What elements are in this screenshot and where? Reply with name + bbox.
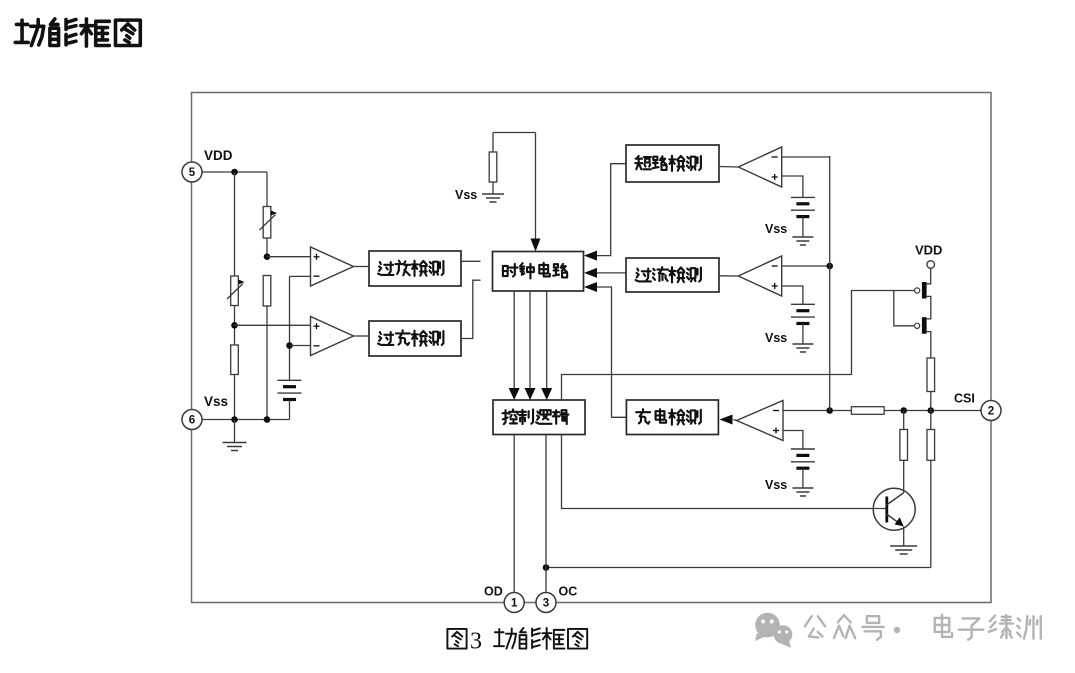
battery reference B4 xyxy=(791,449,815,488)
wire M1 source to M2 drain xyxy=(927,296,931,319)
arrow into control 1 xyxy=(509,388,520,400)
resistor R8 sense (horizontal) xyxy=(851,407,884,415)
arrow into clock right 3 xyxy=(584,282,597,292)
label OC pin3 xyxy=(559,585,578,599)
svg-text:3: 3 xyxy=(470,629,482,655)
wire 过放检测 to clock xyxy=(461,260,481,262)
battery reference B1 xyxy=(278,380,302,419)
wire Q1 emitter xyxy=(903,526,905,546)
wire comparator D plus to reference xyxy=(782,286,803,304)
svg-text:VDD: VDD xyxy=(915,243,942,258)
arrow into control 2 xyxy=(525,388,536,400)
transistor M2 (PMOS) xyxy=(915,317,927,334)
wire sense vertical x=829.7 xyxy=(829,156,831,411)
node divider tap B xyxy=(231,322,238,329)
wire comparator C plus to reference xyxy=(782,176,803,197)
watermark text 公众号 电子绿洲 xyxy=(805,615,1041,640)
wire control to OC pin xyxy=(545,435,547,594)
op-amp comparator C (short-circuit) xyxy=(738,147,781,187)
block 充电检测 charger detect xyxy=(626,400,718,435)
battery reference B3 xyxy=(791,304,815,344)
label OD pin1 xyxy=(484,585,503,599)
wire M2 source down xyxy=(927,332,931,358)
svg-text:Vss: Vss xyxy=(765,478,787,492)
wire VDD to M1 drain xyxy=(927,268,931,284)
wire comparator D output xyxy=(719,275,738,277)
node CSI junction 1 xyxy=(826,407,833,414)
ground Vss ref D xyxy=(792,344,813,352)
node reference junction xyxy=(286,342,293,349)
svg-text:Vss: Vss xyxy=(455,188,477,202)
wire comparator E plus to reference xyxy=(783,431,803,450)
wire comparator B minus input xyxy=(290,345,311,347)
label VDD right xyxy=(915,243,942,258)
wire comparator B plus input xyxy=(235,324,311,326)
resistor R5 top bias xyxy=(489,133,497,195)
label VDD pin5 xyxy=(204,148,233,163)
wire comparator B output xyxy=(354,335,370,337)
resistor R3 xyxy=(231,345,239,375)
label Vss ref D xyxy=(765,331,787,345)
svg-text:3: 3 xyxy=(543,598,549,610)
wire Vss rail from pin6 xyxy=(202,419,290,421)
svg-text:2: 2 xyxy=(988,406,994,418)
arrow into control 3 xyxy=(541,388,552,400)
node sense junction D xyxy=(826,263,833,270)
op-amp comparator D (overcurrent) xyxy=(738,256,781,296)
pin 1 OD xyxy=(504,593,524,613)
svg-text:VDD: VDD xyxy=(204,148,233,163)
ground Vss ref E xyxy=(792,488,813,496)
wire control to FET gate bus xyxy=(562,291,915,401)
svg-text:5: 5 xyxy=(189,167,196,179)
op-amp comparator B (overcharge) xyxy=(311,317,354,356)
node Vss junction 1 xyxy=(231,416,238,423)
op-amp comparator A (overdischarge) xyxy=(311,247,354,286)
label CSI pin2 xyxy=(954,392,975,406)
svg-text:Vss: Vss xyxy=(204,394,228,409)
wire base drive from control xyxy=(562,435,887,509)
op-amp comparator E (charger) xyxy=(737,401,784,441)
node Vss junction 2 xyxy=(264,416,271,423)
block 过流检测 overcurrent detect xyxy=(626,258,719,292)
svg-text:Vss: Vss xyxy=(765,331,787,345)
transistor Q1 (NPN) xyxy=(873,488,915,530)
terminal VDD open circle xyxy=(927,261,935,269)
wire 过流检测 to clock xyxy=(597,272,627,274)
wire VDD rail from pin5 xyxy=(202,171,267,173)
ground under Q1 xyxy=(890,546,917,554)
block 过放检测 overdischarge detect xyxy=(369,251,461,286)
wire 充电检测 to clock xyxy=(597,287,627,417)
svg-text:OC: OC xyxy=(559,585,578,599)
wire branch x=267 xyxy=(266,172,268,420)
node divider tap A xyxy=(264,253,271,260)
wire bias to clock top xyxy=(493,133,536,242)
block 过充检测 overcharge detect xyxy=(369,321,461,356)
label Vss pin6 xyxy=(204,394,228,409)
wire comparator D minus to CSI sense xyxy=(782,265,830,267)
arrow into clock top xyxy=(531,239,541,252)
wire comparator C minus to CSI sense xyxy=(782,156,830,158)
arrow comparator E output into 充电检测 xyxy=(720,415,737,425)
watermark wechat icon xyxy=(755,613,792,648)
block 控制逻辑 control logic xyxy=(493,400,585,435)
resistor R9 xyxy=(927,411,935,568)
arrow into clock left 1 xyxy=(494,256,507,266)
wire comparator C output xyxy=(719,166,738,169)
battery reference B2 xyxy=(791,197,815,237)
wire comparator A output xyxy=(354,266,370,268)
caption 图3 功能框图 xyxy=(447,628,587,655)
wire OC rail xyxy=(546,567,931,569)
node CSI junction 3 xyxy=(928,407,935,414)
IC boundary rectangle xyxy=(192,93,992,603)
pin 3 OC xyxy=(536,593,556,613)
block 时钟电路 clock circuit xyxy=(493,252,584,292)
wire R7 to CSI rail xyxy=(930,392,932,411)
svg-text:6: 6 xyxy=(189,415,195,427)
svg-text:CSI: CSI xyxy=(954,392,975,406)
node OC junction xyxy=(543,564,550,571)
label Vss top xyxy=(455,188,477,202)
arrow into clock right 2 xyxy=(584,268,597,278)
ground symbol left xyxy=(223,420,247,451)
label Vss ref C xyxy=(765,222,787,236)
svg-text:Vss: Vss xyxy=(765,222,787,236)
block 短路检测 short-circuit detect xyxy=(626,145,719,182)
svg-text:1: 1 xyxy=(511,598,518,610)
arrow into clock right 1 xyxy=(584,251,597,261)
arrow into clock left 2 xyxy=(494,275,507,285)
wire control to OD pin xyxy=(513,435,515,594)
svg-text:OD: OD xyxy=(484,585,503,599)
wire 短路检测 to clock xyxy=(597,164,627,256)
pin 5 VDD xyxy=(182,162,202,182)
ground top (Vss) xyxy=(482,194,504,202)
transistor M1 (PMOS) xyxy=(915,282,927,299)
page title 功能框图 xyxy=(15,19,140,46)
label Vss ref E xyxy=(765,478,787,492)
node CSI junction 2 xyxy=(900,407,907,414)
wire comparator A plus input xyxy=(267,256,311,258)
resistor R4 xyxy=(263,276,271,307)
node VDD junction xyxy=(231,169,238,176)
wire 过充检测 to clock xyxy=(461,280,481,338)
wire comparator E minus (CSI rail) xyxy=(783,410,981,412)
resistor R6 xyxy=(900,411,908,494)
pin 6 Vss xyxy=(182,410,202,430)
wires clock to control logic xyxy=(514,291,547,390)
resistor R7 xyxy=(927,358,935,392)
wire left divider branch x=234 xyxy=(234,172,236,420)
variable resistor R2 xyxy=(227,276,245,306)
wire comparator A minus to reference xyxy=(290,276,311,380)
pin 2 CSI xyxy=(981,401,1001,421)
variable resistor R1 xyxy=(260,207,278,239)
ground Vss ref C xyxy=(792,237,813,245)
